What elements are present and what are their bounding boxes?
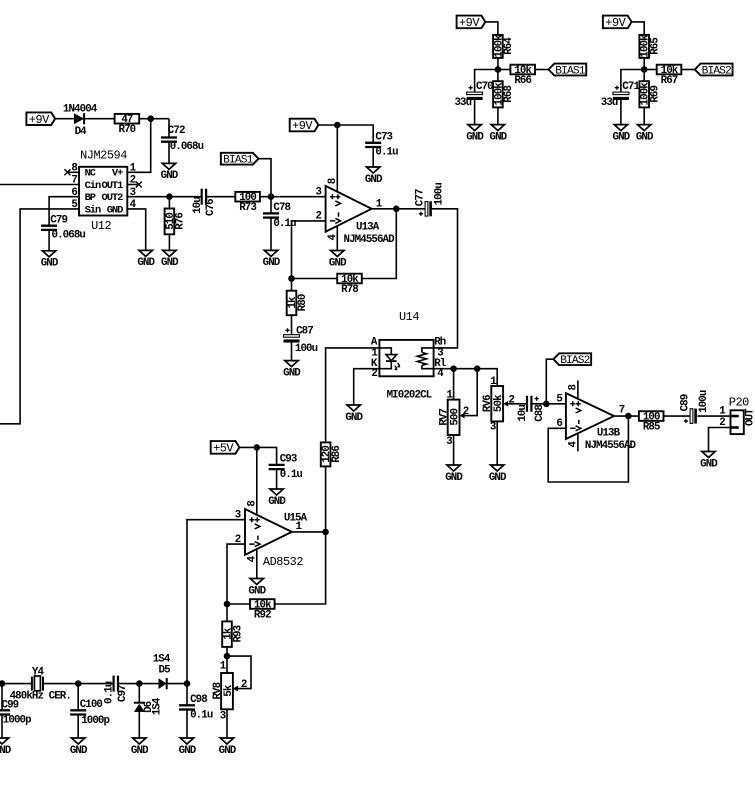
wire Cin pin7 bbox=[0, 184, 79, 186]
junction bbox=[641, 66, 648, 73]
svg-text:Y4: Y4 bbox=[32, 666, 45, 678]
svg-text:C89: C89 bbox=[679, 394, 691, 411]
junction bbox=[166, 193, 173, 200]
wire OUT2 net bbox=[127, 196, 202, 198]
svg-text:33u: 33u bbox=[454, 97, 471, 109]
svg-text:BIAS1: BIAS1 bbox=[555, 66, 585, 78]
net label BIAS1 bbox=[549, 64, 587, 78]
wire pin8 stub bbox=[67, 171, 79, 173]
svg-text:R70: R70 bbox=[119, 124, 136, 136]
wire pin8 stub bbox=[577, 380, 579, 399]
svg-text:GND: GND bbox=[161, 170, 179, 182]
svg-text:C93: C93 bbox=[280, 453, 297, 465]
wire bbox=[168, 142, 170, 164]
wire bbox=[531, 403, 566, 405]
svg-text:GND: GND bbox=[161, 257, 179, 269]
svg-text:R67: R67 bbox=[661, 75, 678, 87]
junction bbox=[0, 680, 5, 687]
svg-text:D4: D4 bbox=[75, 126, 88, 138]
ground bbox=[283, 361, 301, 380]
svg-text:0.068u: 0.068u bbox=[52, 230, 86, 242]
wire bbox=[535, 69, 549, 71]
capacitor C70 33u bbox=[454, 81, 493, 109]
svg-text:D5: D5 bbox=[159, 665, 171, 677]
svg-text:C71: C71 bbox=[622, 81, 640, 93]
svg-text:GND: GND bbox=[41, 258, 59, 270]
svg-text:C72: C72 bbox=[168, 125, 185, 137]
wire bbox=[453, 369, 455, 400]
svg-text:1000p: 1000p bbox=[81, 715, 109, 727]
wire bbox=[127, 119, 150, 173]
wire bbox=[239, 447, 276, 465]
capacitor C87 100u bbox=[284, 326, 318, 356]
wire bbox=[475, 70, 498, 94]
junction bbox=[450, 365, 457, 372]
svg-text:C97: C97 bbox=[117, 685, 129, 702]
svg-text:0.1u: 0.1u bbox=[190, 710, 213, 722]
resistor R65 100k bbox=[639, 34, 661, 58]
wire BIAS1 drop bbox=[259, 159, 271, 197]
junction bbox=[224, 601, 231, 608]
svg-text:NJM2594: NJM2594 bbox=[80, 149, 127, 163]
wire bbox=[697, 415, 730, 417]
wire bbox=[77, 715, 79, 739]
svg-text:U13B: U13B bbox=[597, 428, 621, 440]
resistor R80 1k bbox=[287, 291, 309, 316]
wire pin4 stub bbox=[336, 226, 338, 251]
ground bbox=[219, 738, 237, 757]
svg-text:GND: GND bbox=[131, 745, 149, 757]
svg-text:V+: V+ bbox=[112, 168, 123, 180]
junction bbox=[334, 122, 341, 129]
svg-text:Sin: Sin bbox=[85, 204, 101, 216]
ground bbox=[268, 489, 286, 508]
ground bbox=[0, 738, 12, 757]
svg-text:GND: GND bbox=[636, 131, 654, 143]
RV8 pin numbers bbox=[220, 661, 247, 723]
wire bbox=[318, 125, 373, 143]
capacitor C100 1000p bbox=[70, 699, 109, 727]
wire bbox=[664, 415, 692, 417]
svg-text:GND: GND bbox=[179, 745, 197, 757]
svg-text:GND: GND bbox=[0, 745, 12, 757]
U13B labels bbox=[556, 394, 636, 452]
svg-text:0.1u: 0.1u bbox=[104, 681, 116, 704]
svg-text:AD8532: AD8532 bbox=[263, 555, 303, 569]
wire bbox=[498, 69, 511, 71]
net label BIAS2 bbox=[553, 353, 591, 367]
wire bbox=[226, 709, 228, 738]
svg-text:U13A: U13A bbox=[356, 222, 380, 234]
svg-text:GND: GND bbox=[490, 131, 508, 143]
junction bbox=[322, 529, 329, 536]
capacitor C99 1000p bbox=[0, 699, 31, 726]
svg-text:P20: P20 bbox=[729, 396, 749, 410]
svg-text:3: 3 bbox=[446, 436, 452, 448]
wire pin4 stub bbox=[256, 549, 258, 578]
svg-text:RV6: RV6 bbox=[482, 395, 494, 412]
wire bbox=[55, 118, 74, 120]
RV7 pin numbers bbox=[446, 390, 468, 449]
svg-text:R86: R86 bbox=[331, 446, 343, 463]
wire bbox=[643, 58, 645, 81]
svg-text:1000p: 1000p bbox=[3, 715, 31, 727]
wire bbox=[620, 98, 622, 125]
wire BIAS2 drop bbox=[546, 359, 553, 404]
svg-text:0.068u: 0.068u bbox=[170, 141, 204, 153]
junction bbox=[474, 365, 481, 372]
ground bbox=[365, 167, 383, 186]
op-amp U13A bbox=[326, 186, 372, 232]
ground bbox=[70, 738, 88, 757]
junction bbox=[625, 413, 632, 420]
wire pin6 loop bbox=[548, 416, 628, 482]
svg-text:10u: 10u bbox=[517, 405, 529, 422]
wire pin2 bbox=[227, 544, 245, 604]
wire bbox=[48, 230, 50, 251]
junction bbox=[253, 444, 260, 451]
junction bbox=[75, 680, 82, 687]
wire bbox=[621, 70, 644, 94]
resistor R78 10k bbox=[337, 274, 362, 296]
wire RV8 wiper bbox=[227, 656, 251, 689]
optocoupler U14 body bbox=[379, 310, 433, 401]
svg-text:+9V: +9V bbox=[29, 113, 50, 127]
ground bbox=[248, 579, 266, 598]
junction bbox=[147, 115, 154, 122]
capacitor C72 0.068u bbox=[161, 125, 204, 153]
wire bbox=[497, 107, 499, 124]
junction bbox=[224, 653, 231, 660]
wire bbox=[644, 69, 657, 71]
trimmer RV8 5k bbox=[212, 673, 238, 709]
wire bbox=[186, 710, 188, 739]
power flag +5V bbox=[211, 441, 240, 456]
diode D6 1S4 bbox=[134, 697, 163, 715]
svg-text:480kHz CER.: 480kHz CER. bbox=[10, 690, 71, 702]
junction bbox=[268, 193, 275, 200]
svg-text:3: 3 bbox=[220, 711, 226, 723]
svg-text:2: 2 bbox=[463, 406, 469, 418]
svg-text:3: 3 bbox=[316, 186, 322, 198]
wire bbox=[632, 22, 645, 35]
svg-text:C78: C78 bbox=[273, 202, 290, 214]
U14 internal LED bbox=[379, 348, 396, 369]
wire output bbox=[372, 208, 426, 210]
svg-text:0.1u: 0.1u bbox=[375, 147, 398, 159]
wire bbox=[372, 147, 374, 167]
svg-text:0.1u: 0.1u bbox=[280, 469, 303, 481]
svg-text:500: 500 bbox=[450, 409, 462, 426]
wire bbox=[431, 209, 457, 348]
ground bbox=[636, 125, 654, 144]
ground bbox=[41, 251, 59, 270]
svg-text:GND: GND bbox=[489, 472, 507, 484]
svg-text:R93: R93 bbox=[232, 625, 244, 642]
wire bbox=[168, 197, 170, 209]
wire bbox=[291, 315, 293, 336]
wire to pin2 bbox=[292, 221, 326, 279]
wire pin2 stub bbox=[127, 184, 139, 186]
svg-text:C88: C88 bbox=[534, 405, 546, 422]
capacitor C71 33u bbox=[601, 81, 641, 109]
wire bbox=[138, 684, 140, 703]
ground bbox=[263, 250, 281, 269]
capacitor C98 0.1u bbox=[179, 694, 213, 722]
svg-text:1S4: 1S4 bbox=[153, 653, 171, 665]
P20 pin numbers bbox=[719, 406, 726, 430]
wire bbox=[139, 118, 169, 120]
wire bbox=[226, 647, 228, 673]
svg-text:R68: R68 bbox=[503, 86, 515, 103]
wire bbox=[168, 119, 170, 138]
svg-text:100u: 100u bbox=[698, 390, 710, 413]
wire bbox=[1, 684, 3, 711]
capacitor C79 0.068u bbox=[41, 215, 85, 242]
resonator Y4 480kHz bbox=[10, 666, 71, 702]
svg-text:+9V: +9V bbox=[605, 16, 626, 30]
wire Rl pin bbox=[434, 369, 498, 386]
ground bbox=[489, 465, 507, 484]
wire bbox=[43, 683, 114, 685]
svg-text:GND: GND bbox=[466, 131, 484, 143]
svg-text:C70: C70 bbox=[476, 81, 493, 93]
U12 pin names bbox=[85, 168, 124, 217]
svg-text:33u: 33u bbox=[601, 97, 618, 109]
op-amp U15A bbox=[245, 509, 292, 555]
svg-text:GND: GND bbox=[700, 458, 718, 470]
U12 pin numbers bbox=[71, 163, 136, 212]
wire bbox=[167, 683, 187, 685]
svg-text:R92: R92 bbox=[254, 609, 271, 621]
svg-text:OUT1: OUT1 bbox=[102, 180, 124, 192]
power flag +9V (bias BIAS1) bbox=[457, 16, 486, 31]
wire bbox=[270, 218, 272, 251]
svg-text:+9V: +9V bbox=[459, 16, 480, 30]
svg-text:U14: U14 bbox=[399, 310, 419, 324]
resistor R70 47 bbox=[115, 114, 140, 136]
RV6 pin numbers bbox=[490, 376, 515, 433]
net label BIAS1 bbox=[221, 153, 259, 167]
wire bbox=[496, 421, 498, 465]
wire V+ pin8 bbox=[336, 125, 338, 192]
resistor R73 100 bbox=[235, 192, 260, 214]
resistor R85 100 bbox=[639, 411, 664, 433]
wire bbox=[474, 98, 476, 125]
svg-text:R80: R80 bbox=[297, 294, 309, 311]
svg-text:100u: 100u bbox=[433, 183, 445, 206]
wire output bbox=[292, 531, 326, 533]
resistor R68 100k bbox=[493, 81, 515, 107]
junction bbox=[136, 680, 143, 687]
capacitor C89 100u bbox=[679, 390, 710, 423]
ground bbox=[131, 738, 149, 757]
svg-text:C73: C73 bbox=[375, 131, 392, 143]
svg-text:OUT: OUT bbox=[745, 408, 755, 426]
wire K pin to gnd bbox=[354, 369, 380, 405]
power flag +9V (U13A) bbox=[290, 119, 319, 134]
resistor R69 100k bbox=[639, 81, 661, 107]
U14 pin labels bbox=[371, 337, 447, 381]
capacitor C93 0.1u bbox=[269, 453, 303, 481]
svg-text:RV7: RV7 bbox=[438, 409, 450, 426]
wire bbox=[84, 118, 115, 120]
trimmer RV7 500 bbox=[438, 400, 464, 435]
svg-text:5: 5 bbox=[556, 394, 562, 406]
resistor R93 1k bbox=[222, 621, 244, 647]
svg-text:+9V: +9V bbox=[292, 119, 313, 133]
ground bbox=[445, 465, 463, 484]
C88 plus mark bbox=[535, 397, 539, 401]
wire bbox=[186, 684, 188, 706]
svg-text:Cin: Cin bbox=[85, 180, 101, 192]
svg-text:GND: GND bbox=[137, 257, 155, 269]
resistor R92 10k bbox=[250, 599, 275, 621]
wire bbox=[275, 532, 326, 604]
wire RV6 wiper bbox=[508, 403, 526, 405]
svg-text:BIAS2: BIAS2 bbox=[702, 66, 731, 78]
svg-text:0.1u: 0.1u bbox=[273, 218, 296, 230]
junction bbox=[495, 66, 502, 73]
svg-text:R85: R85 bbox=[643, 421, 660, 433]
svg-text:C79: C79 bbox=[50, 215, 67, 227]
svg-text:GND: GND bbox=[283, 367, 301, 379]
svg-text:GND: GND bbox=[219, 745, 237, 757]
wire bbox=[497, 58, 499, 81]
svg-text:BP: BP bbox=[85, 192, 96, 204]
wire bbox=[292, 278, 338, 280]
svg-text:8: 8 bbox=[246, 501, 258, 507]
ground bbox=[161, 163, 179, 182]
svg-text:BIAS2: BIAS2 bbox=[560, 355, 589, 367]
svg-text:100u: 100u bbox=[295, 343, 318, 355]
wire bbox=[325, 466, 327, 532]
svg-text:1N4004: 1N4004 bbox=[63, 103, 98, 115]
U12 pin 2 no-connect bbox=[136, 182, 142, 188]
wire bbox=[1, 715, 3, 739]
wire RV7 wiper bbox=[465, 369, 478, 416]
svg-text:5k: 5k bbox=[223, 684, 235, 697]
svg-text:OUT2: OUT2 bbox=[102, 192, 124, 204]
wire pin2 to gnd bbox=[709, 428, 731, 452]
svg-text:50k: 50k bbox=[493, 394, 505, 412]
wire bbox=[206, 196, 235, 198]
svg-text:GND: GND bbox=[345, 412, 363, 424]
capacitor C76 10u bbox=[192, 189, 217, 216]
U14 LED light arrows bbox=[394, 363, 400, 370]
svg-text:8: 8 bbox=[327, 178, 339, 184]
svg-text:R64: R64 bbox=[503, 37, 515, 55]
wire bbox=[118, 683, 159, 685]
wire bbox=[77, 684, 79, 711]
svg-text:GND: GND bbox=[70, 745, 88, 757]
op-amp U13B bbox=[566, 393, 614, 439]
svg-text:GND: GND bbox=[248, 585, 266, 597]
svg-text:NC: NC bbox=[85, 168, 96, 180]
svg-text:GND: GND bbox=[365, 174, 383, 186]
trimmer RV6 50k bbox=[482, 386, 508, 421]
svg-text:C100: C100 bbox=[80, 699, 103, 711]
U12 pin 8 no-connect bbox=[64, 169, 70, 175]
power flag +9V (bias BIAS2) bbox=[603, 16, 632, 31]
svg-text:GND: GND bbox=[329, 257, 347, 269]
junction bbox=[288, 275, 295, 282]
wire bbox=[643, 107, 645, 124]
ground bbox=[161, 250, 179, 269]
svg-text:R76: R76 bbox=[175, 213, 187, 230]
power flag +9V (top left) bbox=[26, 112, 55, 127]
svg-text:7: 7 bbox=[619, 404, 625, 416]
wire bbox=[291, 279, 293, 291]
svg-text:C98: C98 bbox=[190, 694, 207, 706]
diode D4 1N4004 bbox=[63, 103, 98, 137]
svg-text:NJM4556AD: NJM4556AD bbox=[344, 234, 396, 246]
IC U12 NJM2594 body bbox=[79, 149, 127, 234]
ground bbox=[466, 125, 484, 144]
svg-text:R65: R65 bbox=[650, 38, 662, 55]
svg-text:2: 2 bbox=[371, 368, 377, 380]
ground bbox=[700, 452, 718, 471]
svg-text:MI0202CL: MI0202CL bbox=[387, 389, 432, 401]
svg-text:3: 3 bbox=[490, 422, 496, 434]
ground bbox=[179, 738, 197, 757]
wire BP pin6 bbox=[49, 197, 79, 226]
resistor R76 510 bbox=[165, 209, 187, 235]
junction bbox=[543, 401, 550, 408]
svg-text:R66: R66 bbox=[514, 75, 531, 87]
wire bbox=[291, 340, 293, 361]
wire bbox=[276, 469, 278, 489]
svg-text:+5V: +5V bbox=[213, 442, 234, 456]
wire bbox=[681, 69, 695, 71]
net label BIAS2 bbox=[695, 64, 733, 78]
wire A pin bbox=[326, 348, 380, 443]
svg-text:GND: GND bbox=[445, 472, 463, 484]
junction bbox=[184, 680, 191, 687]
capacitor C77 100u bbox=[415, 183, 446, 217]
wire output bbox=[614, 415, 639, 417]
resistor R64 100k bbox=[493, 34, 515, 58]
wire bbox=[485, 22, 498, 35]
wire Sin pin5 bbox=[0, 209, 79, 424]
wire bbox=[168, 234, 170, 250]
svg-text:R69: R69 bbox=[650, 86, 662, 103]
svg-text:C87: C87 bbox=[296, 326, 313, 338]
svg-text:GND: GND bbox=[107, 204, 123, 216]
ground bbox=[490, 125, 508, 144]
svg-text:C76: C76 bbox=[205, 199, 217, 216]
wire bbox=[260, 196, 326, 198]
ground bbox=[137, 250, 155, 269]
wire pin4 stub bbox=[577, 433, 579, 451]
capacitor C73 0.1u bbox=[365, 131, 398, 158]
capacitor C78 0.1u bbox=[263, 202, 296, 230]
U13A labels bbox=[316, 186, 396, 246]
resistor R67 10k bbox=[657, 65, 682, 87]
wire pin8 bbox=[256, 447, 258, 514]
ground bbox=[329, 251, 347, 270]
wire bbox=[227, 603, 250, 605]
resistor R66 10k bbox=[510, 65, 535, 87]
svg-text:BIAS1: BIAS1 bbox=[223, 155, 253, 167]
wire bbox=[138, 712, 140, 738]
wire bbox=[226, 604, 228, 621]
U14 internal photoresistor bbox=[417, 348, 433, 369]
wire bbox=[270, 197, 272, 214]
svg-text:U12: U12 bbox=[91, 219, 111, 233]
wire main bbox=[0, 683, 32, 685]
ground bbox=[613, 125, 631, 144]
